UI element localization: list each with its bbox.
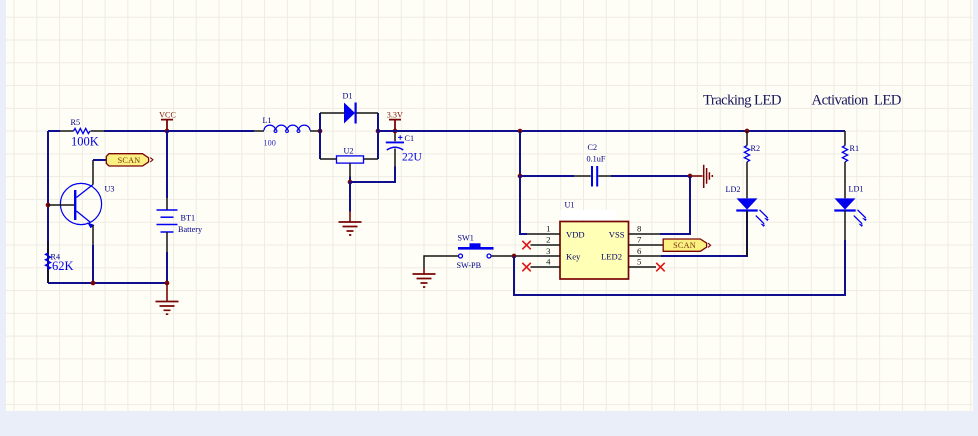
wire: loop left vertical <box>319 113 321 159</box>
svg-text:D1: D1 <box>343 92 353 101</box>
svg-text:SCAN: SCAN <box>118 156 141 165</box>
svg-text:C1: C1 <box>405 134 415 143</box>
junction: C2 right / VSS / earth <box>688 174 693 179</box>
wire: rail corner down to R1 <box>844 131 846 146</box>
svg-text:L1: L1 <box>263 116 272 125</box>
wire: rail VCC to L1 <box>167 130 254 132</box>
svg-text:VSS: VSS <box>609 229 625 239</box>
svg-text:22U: 22U <box>402 151 423 163</box>
switch SW1 <box>457 234 494 271</box>
resistor R5 <box>60 118 104 149</box>
wire: VSS riser (junction down to pin8) <box>660 176 690 234</box>
wire: VDD vertical down to pin1 <box>520 176 527 234</box>
svg-text:R5: R5 <box>71 118 81 127</box>
wire: left vertical rail <box>47 131 49 283</box>
ground (earth, rotated, right of C2) <box>690 165 712 188</box>
junction: U2 / C1 / ground <box>348 180 353 185</box>
svg-text:C2: C2 <box>588 143 598 152</box>
svg-text:7: 7 <box>637 235 642 245</box>
wire: junction to C1 bottom <box>350 167 395 183</box>
pin 7 <box>629 235 664 245</box>
wire: bottom-left horizontal <box>48 282 167 284</box>
junction: loop left <box>318 129 323 134</box>
resistor R2 <box>744 131 760 198</box>
power port 3.3V <box>387 111 403 131</box>
svg-text:VCC: VCC <box>159 111 176 120</box>
regulator U2 <box>320 147 378 177</box>
svg-text:100K: 100K <box>71 134 99 148</box>
junction: base tap on left rail <box>46 203 51 208</box>
capacitor C2 <box>574 143 611 187</box>
svg-text:R2: R2 <box>751 144 761 153</box>
wire: SW1 right contact to Key junction <box>491 255 514 257</box>
svg-text:SCAN: SCAN <box>673 241 696 250</box>
transistor U3 <box>48 160 115 245</box>
svg-text:1: 1 <box>546 224 550 234</box>
svg-text:LD2: LD2 <box>726 185 741 194</box>
LED LD1 <box>834 185 867 241</box>
wire: emitter down to bottom rail <box>92 245 94 283</box>
svg-text:3.3V: 3.3V <box>387 111 403 120</box>
wire: collector to SCAN port <box>93 159 106 161</box>
port SCAN (right, on pin 7) <box>663 239 710 251</box>
svg-text:5: 5 <box>637 257 642 267</box>
junction: battery / bottom rail <box>165 281 170 286</box>
diode D1 <box>320 92 378 124</box>
no-connect X pin2 <box>522 241 531 250</box>
port SCAN (left) <box>106 154 153 166</box>
junction: Key / SW1 / bottom loop <box>512 254 517 259</box>
pin 5 <box>629 257 657 267</box>
wire: Key junction down and bottom rail to LD1 <box>514 240 845 295</box>
svg-text:LED2: LED2 <box>601 252 622 262</box>
pin 8 <box>629 224 661 234</box>
svg-text:SW1: SW1 <box>458 234 474 243</box>
junction: VCC / rail <box>165 129 170 134</box>
wire: C2 left lead <box>520 175 574 177</box>
junction: 3.3V / C1 / rail <box>393 129 398 134</box>
power port VCC <box>159 111 176 132</box>
svg-text:8: 8 <box>637 224 642 234</box>
wire: VCC down to battery <box>166 131 168 198</box>
svg-text:3: 3 <box>546 246 551 256</box>
wire: C2 right lead <box>611 175 690 177</box>
wire: junction down to ground <box>349 182 351 212</box>
wire: top rail from left corner to VCC <box>48 130 167 132</box>
LED LD2 <box>726 185 769 256</box>
wire: loop right vertical <box>377 113 379 159</box>
pin 6 <box>629 246 662 256</box>
svg-text:Tracking LED: Tracking LED <box>703 93 782 109</box>
svg-text:0.1uF: 0.1uF <box>587 154 606 163</box>
svg-text:BT1: BT1 <box>181 214 196 223</box>
svg-text:100: 100 <box>264 139 276 148</box>
svg-text:2: 2 <box>546 235 550 245</box>
pin 2 <box>531 235 561 245</box>
no-connect X pin4 <box>522 263 531 272</box>
no-connect X pin5 <box>656 263 665 272</box>
resistor R4 <box>45 241 73 283</box>
wire: pin6 to LD2 bottom <box>661 211 747 256</box>
resistor R1 <box>842 144 859 198</box>
svg-text:4: 4 <box>546 257 551 267</box>
pin 3 <box>514 246 560 256</box>
inductor L1 <box>254 116 320 148</box>
svg-text:62K: 62K <box>52 259 74 273</box>
IC U1 <box>560 201 629 279</box>
wire: rail down to C2 level <box>519 131 521 176</box>
svg-text:R1: R1 <box>850 144 860 153</box>
svg-text:LD1: LD1 <box>849 185 864 194</box>
wire: SW1 left contact to ground <box>424 256 458 268</box>
annotation: Activation LED <box>812 93 902 109</box>
wire: rail loop-right to R1 corner <box>378 130 845 132</box>
svg-text:Key: Key <box>566 252 581 262</box>
pin 1 <box>527 224 560 234</box>
wire: battery to ground junction <box>166 252 168 283</box>
capacitor C1 <box>386 131 423 167</box>
ground (left of SW1) <box>413 268 436 287</box>
svg-text:VDD: VDD <box>566 229 585 239</box>
wire: U2 bottom to junction <box>349 177 351 183</box>
annotation: Tracking LED <box>703 93 782 109</box>
junction: C2 left <box>518 174 523 179</box>
ground (below U2) <box>339 212 362 236</box>
junction: emitter / bottom rail <box>91 281 96 286</box>
svg-text:Activation LED: Activation LED <box>812 93 902 109</box>
svg-text:6: 6 <box>637 246 642 256</box>
svg-text:SW-PB: SW-PB <box>457 261 482 270</box>
battery BT1 <box>157 198 204 252</box>
svg-text:U3: U3 <box>105 185 115 194</box>
svg-text:U1: U1 <box>565 201 575 210</box>
ground (below battery) <box>156 283 179 314</box>
pin 4 <box>531 257 561 267</box>
junction: VDD branch on rail <box>518 129 523 134</box>
svg-text:Battery: Battery <box>178 225 203 234</box>
junction: loop right <box>376 129 381 134</box>
junction: R2 on rail <box>745 129 750 134</box>
svg-text:U2: U2 <box>344 147 354 156</box>
